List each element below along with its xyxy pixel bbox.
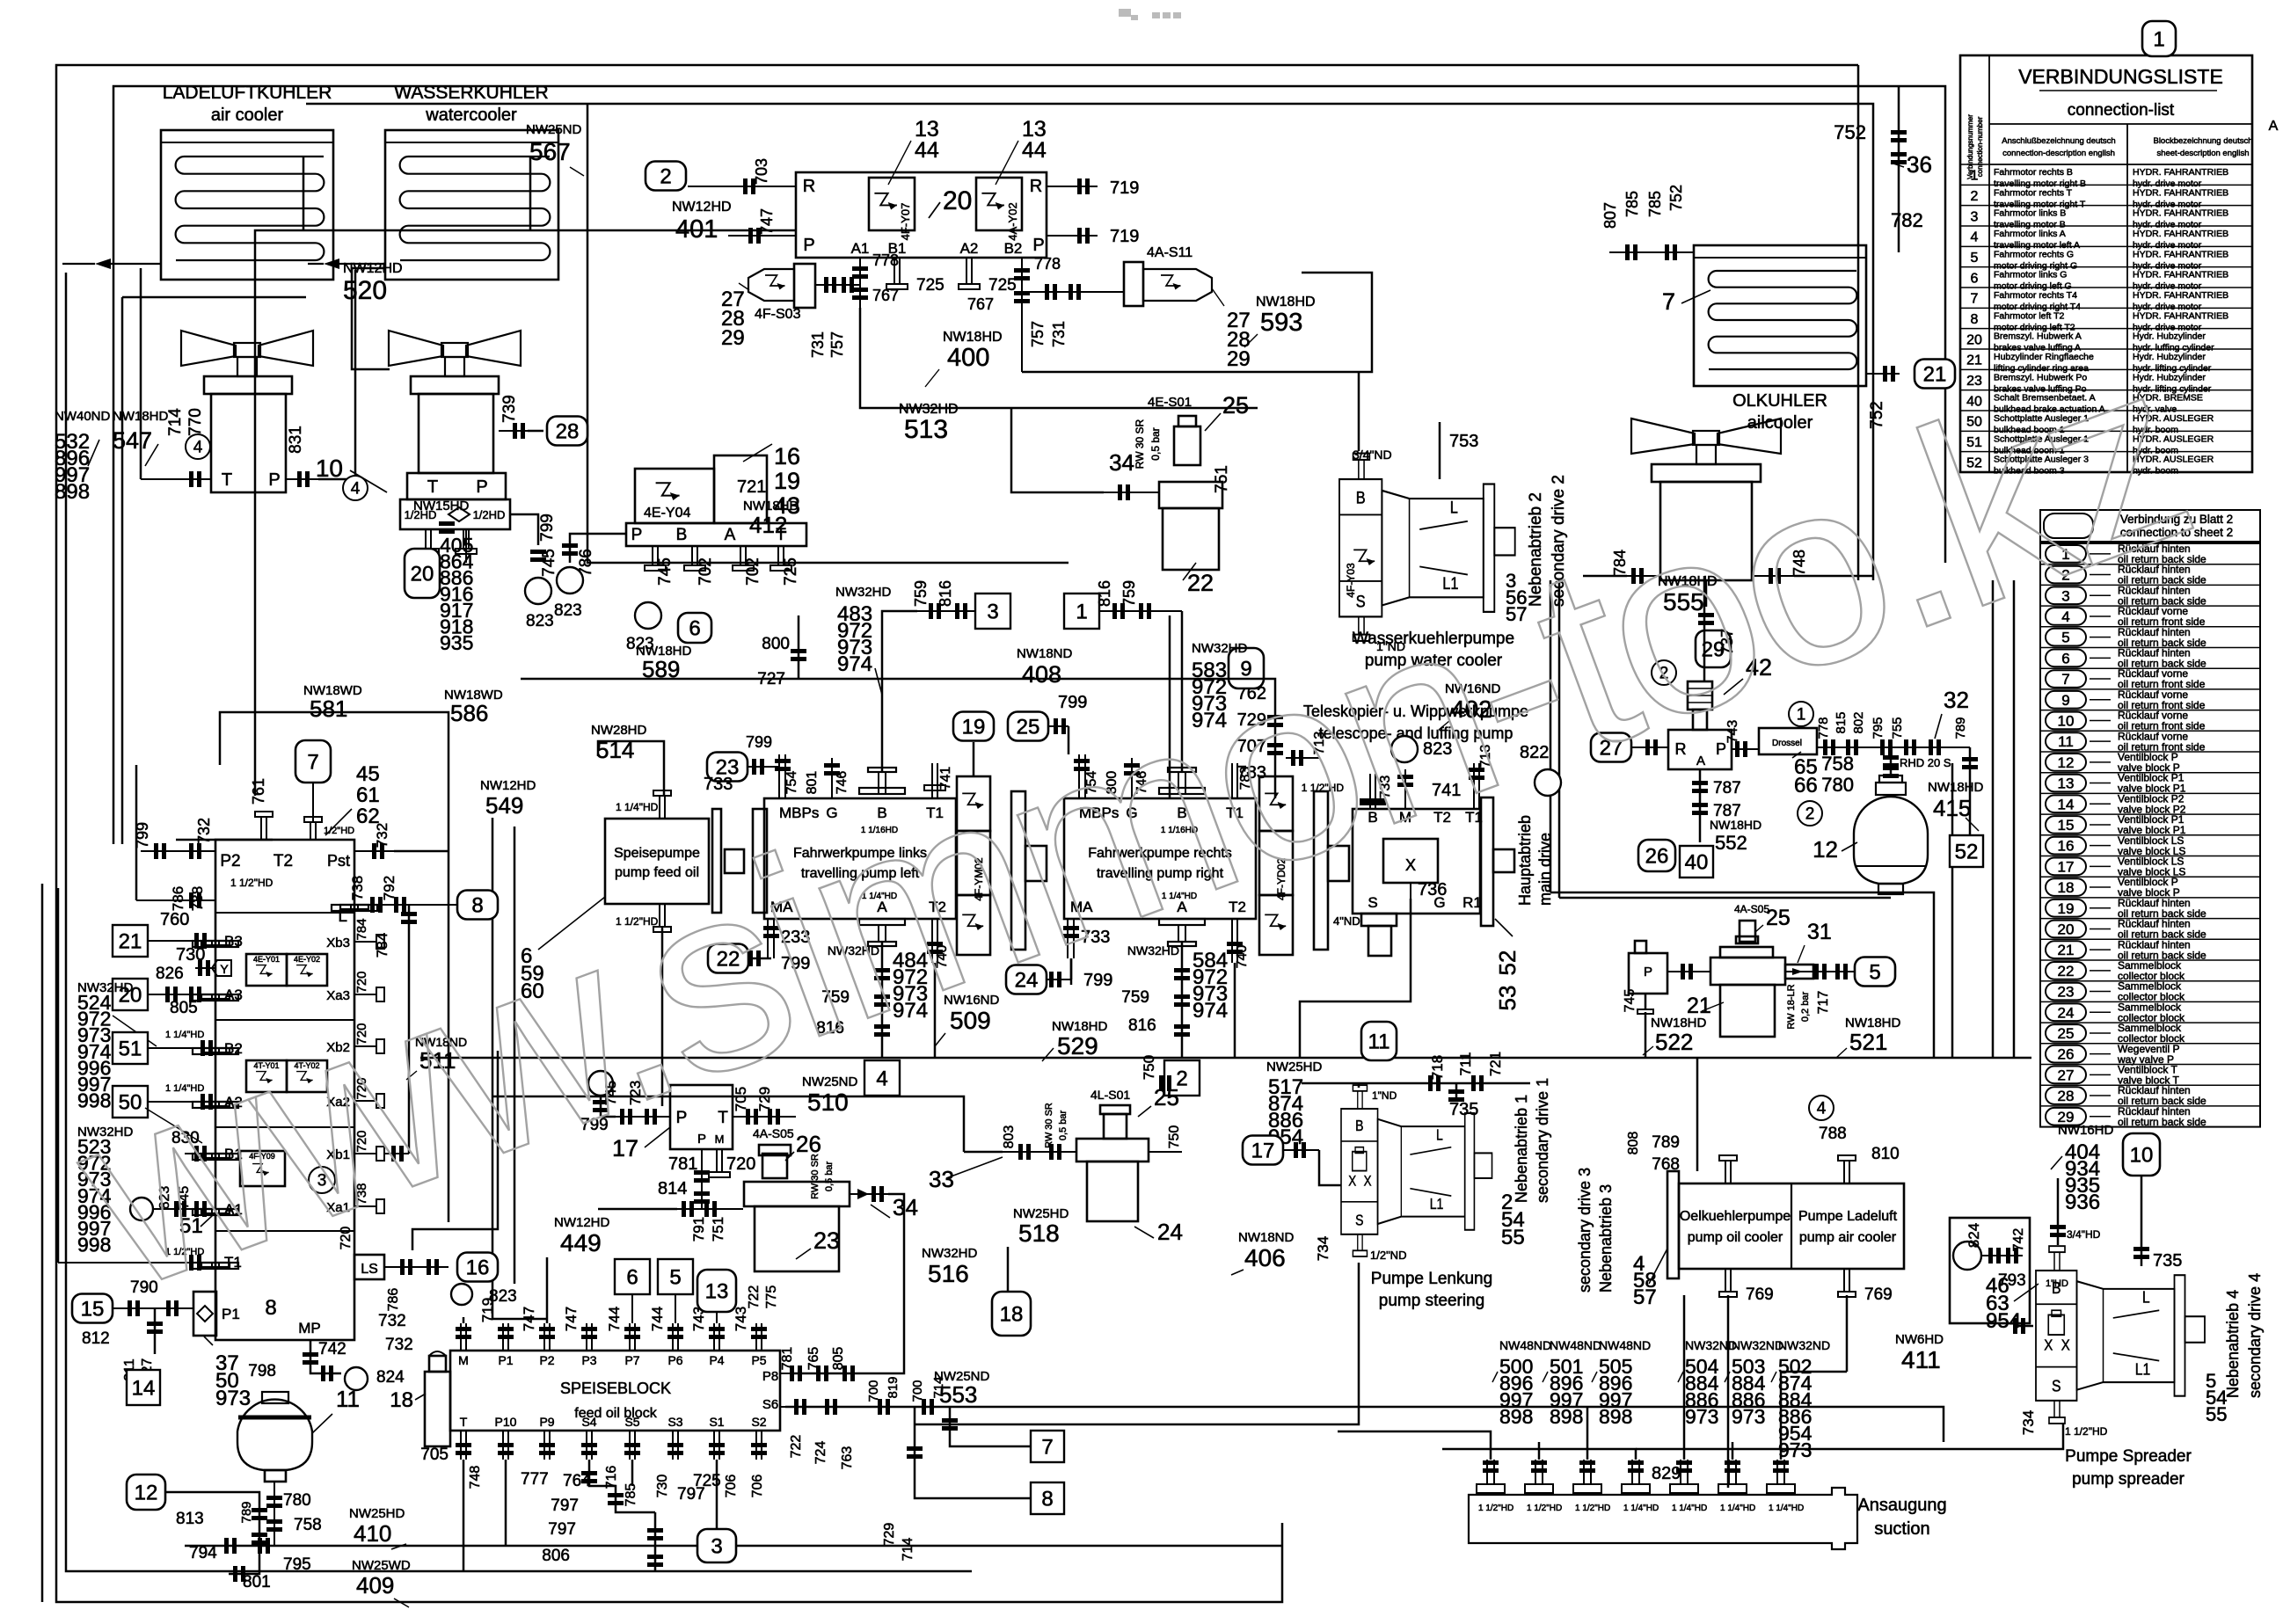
svg-text:L: L — [1436, 1127, 1443, 1144]
svg-text:pump oil cooler: pump oil cooler — [1688, 1230, 1783, 1245]
svg-text:RW 30 SR: RW 30 SR — [1134, 419, 1146, 469]
svg-text:17: 17 — [1251, 1139, 1275, 1162]
Speisepumpe — [605, 819, 709, 904]
svg-text:409: 409 — [356, 1572, 394, 1599]
svg-text:725: 725 — [916, 276, 945, 295]
svg-text:23: 23 — [2058, 984, 2075, 1001]
svg-text:P: P — [476, 477, 487, 497]
svg-text:812: 812 — [82, 1329, 110, 1348]
svg-text:408: 408 — [1022, 661, 1061, 688]
svg-text:759: 759 — [912, 580, 930, 607]
svg-text:2: 2 — [1971, 189, 1979, 204]
table connection to sheet 2 — [2040, 510, 2260, 542]
svg-text:Anschlußbezeichnung deutsch: Anschlußbezeichnung deutsch — [2002, 136, 2115, 146]
svg-text:NW48ND: NW48ND — [1550, 1338, 1601, 1352]
svg-text:44: 44 — [1022, 138, 1047, 163]
svg-text:7: 7 — [307, 750, 318, 774]
wire top right vertical — [1857, 65, 1860, 580]
bottom fittings — [252, 1508, 267, 1512]
svg-text:sheet-description english: sheet-description english — [2156, 149, 2249, 158]
wire right tall pair — [1550, 580, 1552, 892]
svg-text:786: 786 — [386, 1288, 401, 1312]
svg-text:NW15HD: NW15HD — [413, 499, 470, 513]
svg-text:449: 449 — [560, 1229, 602, 1256]
svg-text:L: L — [1450, 498, 1458, 517]
svg-text:7: 7 — [1971, 292, 1979, 307]
gauge 823b — [635, 602, 661, 629]
bubble 15 etc — [72, 1294, 113, 1323]
svg-text:S1: S1 — [709, 1415, 724, 1429]
valve block 20 — [796, 172, 1047, 258]
oil cooler fan — [1631, 419, 1695, 454]
svg-text:NW48ND: NW48ND — [1599, 1338, 1651, 1352]
Pst wire — [354, 850, 394, 852]
svg-text:19: 19 — [774, 468, 800, 494]
svg-text:973: 973 — [215, 1387, 251, 1410]
svg-text:X: X — [2061, 1336, 2070, 1353]
svg-text:15: 15 — [2058, 817, 2075, 834]
svg-text:936: 936 — [2065, 1191, 2100, 1214]
circle 4b — [343, 476, 368, 500]
svg-text:pump spreader: pump spreader — [2072, 1470, 2185, 1489]
gauge 822 — [1535, 769, 1561, 796]
wire coolers loop — [306, 104, 1873, 580]
svg-text:10: 10 — [2058, 712, 2075, 729]
svg-text:750: 750 — [1141, 1055, 1157, 1080]
svg-text:L: L — [2142, 1288, 2150, 1306]
svg-text:714: 714 — [166, 408, 185, 436]
svg-text:NW18HD: NW18HD — [113, 409, 169, 424]
svg-text:4: 4 — [1817, 1099, 1827, 1118]
Hauptabtrieb — [1353, 809, 1480, 914]
fittings col 762/729/707/783 — [1274, 695, 1277, 798]
pump water cooler — [1339, 454, 1515, 641]
svg-text:752: 752 — [1834, 121, 1866, 143]
svg-text:1 1/4"HD: 1 1/4"HD — [1769, 1504, 1804, 1513]
svg-text:797: 797 — [677, 1485, 705, 1504]
top tiny marks — [1119, 9, 1181, 20]
svg-text:T2: T2 — [274, 852, 293, 870]
svg-text:Y: Y — [220, 962, 229, 976]
svg-text:8: 8 — [1971, 312, 1979, 327]
wire NW32HD 513 — [1011, 408, 1104, 492]
svg-text:816: 816 — [1096, 580, 1113, 607]
svg-text:R: R — [1030, 177, 1042, 196]
svg-text:731: 731 — [809, 331, 827, 358]
svg-text:411: 411 — [1901, 1346, 1941, 1373]
svg-text:34: 34 — [1109, 449, 1134, 476]
svg-text:NW48ND: NW48ND — [1499, 1338, 1551, 1352]
svg-text:778: 778 — [1034, 255, 1061, 273]
lines down from neben3 — [1727, 1295, 1730, 1488]
haupt top stubs — [1369, 774, 1371, 809]
svg-text:4E-Y01: 4E-Y01 — [253, 955, 280, 964]
svg-text:Fahrmotor left T2: Fahrmotor left T2 — [1994, 310, 2064, 321]
svg-text:1 1/2"HD: 1 1/2"HD — [1575, 1504, 1610, 1513]
svg-text:connection-description english: connection-description english — [2002, 149, 2115, 158]
svg-text:759: 759 — [1121, 988, 1149, 1007]
svg-text:711: 711 — [1457, 1052, 1474, 1075]
svg-text:Nebenabtrieb 3: Nebenabtrieb 3 — [1597, 1184, 1615, 1293]
svg-text:HYDR. FAHRANTRIEB: HYDR. FAHRANTRIEB — [2133, 167, 2228, 178]
svg-text:700: 700 — [866, 1380, 881, 1402]
bubble 24 — [1006, 965, 1047, 994]
svg-text:725: 725 — [782, 557, 800, 586]
svg-text:733: 733 — [704, 775, 733, 794]
17 right fittings — [733, 1116, 796, 1118]
valve block 17 — [670, 1085, 733, 1149]
svg-text:1/2HD: 1/2HD — [473, 508, 506, 521]
svg-text:NW12HD: NW12HD — [343, 261, 403, 276]
svg-text:1"HD: 1"HD — [2046, 1278, 2068, 1289]
svg-text:0,2 bar: 0,2 bar — [1800, 992, 1811, 1023]
oil cooler tank — [1652, 464, 1761, 482]
svg-text:2: 2 — [660, 164, 671, 188]
svg-text:801: 801 — [243, 1573, 271, 1591]
valve plate under tank2 — [407, 473, 506, 499]
filter inlet — [1104, 492, 1159, 493]
svg-text:L1: L1 — [1430, 1197, 1444, 1213]
svg-text:757: 757 — [1029, 321, 1047, 347]
svg-text:759: 759 — [1120, 580, 1138, 607]
4A-S11 sensor — [1124, 262, 1143, 306]
42 top link — [1703, 576, 1706, 681]
svg-text:782: 782 — [1891, 209, 1923, 231]
svg-text:730: 730 — [655, 1475, 670, 1498]
svg-text:789: 789 — [239, 1501, 254, 1523]
svg-text:520: 520 — [343, 276, 387, 305]
svg-text:725: 725 — [988, 276, 1017, 295]
svg-text:747: 747 — [563, 1307, 580, 1331]
svg-text:974: 974 — [1193, 999, 1228, 1023]
svg-text:898: 898 — [1599, 1405, 1632, 1428]
svg-text:Pst: Pst — [327, 852, 350, 870]
800/727 tee — [798, 615, 800, 679]
svg-text:739: 739 — [500, 395, 519, 423]
wire 549 — [492, 818, 494, 1319]
svg-text:814: 814 — [658, 1179, 687, 1198]
svg-text:721: 721 — [737, 477, 766, 497]
svg-text:791: 791 — [690, 1217, 707, 1242]
cooler coil outlet arrow — [106, 263, 161, 265]
solenoid in pump — [1353, 550, 1375, 565]
svg-text:NW12HD: NW12HD — [554, 1215, 610, 1230]
svg-text:28: 28 — [2058, 1088, 2075, 1104]
solenoid stack left pump — [957, 776, 990, 831]
svg-text:3: 3 — [711, 1534, 722, 1558]
svg-text:7: 7 — [1662, 288, 1675, 315]
svg-text:NW25HD: NW25HD — [1266, 1060, 1323, 1074]
svg-text:0,5 bar: 0,5 bar — [1149, 427, 1162, 460]
neben3 stubs — [1725, 1161, 1726, 1183]
bubbles 19/25 — [953, 712, 994, 741]
svg-text:Pumpe Spreader: Pumpe Spreader — [2065, 1447, 2192, 1466]
svg-text:44: 44 — [915, 138, 939, 163]
svg-text:758: 758 — [1821, 753, 1854, 775]
svg-text:11: 11 — [1368, 1030, 1390, 1053]
svg-text:25: 25 — [1766, 906, 1791, 930]
svg-text:718: 718 — [1429, 1055, 1446, 1080]
svg-text:Fahrmotor rechts T: Fahrmotor rechts T — [1994, 187, 2073, 198]
svg-text:807: 807 — [1601, 202, 1619, 229]
svg-text:744: 744 — [606, 1307, 623, 1331]
svg-text:823: 823 — [526, 612, 554, 630]
svg-text:787: 787 — [1713, 779, 1741, 797]
svg-text:NW32ND: NW32ND — [1732, 1338, 1783, 1352]
svg-text:RW 30 SR: RW 30 SR — [810, 1154, 821, 1199]
wire cooler out to fans — [140, 268, 142, 479]
handle on top — [1688, 681, 1712, 710]
svg-text:799: 799 — [746, 733, 772, 751]
A port down right — [1159, 919, 1205, 925]
svg-text:36: 36 — [1907, 151, 1932, 178]
svg-text:593: 593 — [1260, 309, 1302, 337]
svg-text:415: 415 — [1933, 795, 1971, 821]
wire 593 loop — [1022, 273, 1372, 372]
svg-text:719: 719 — [1110, 227, 1139, 246]
svg-text:MP: MP — [298, 1320, 321, 1336]
svg-text:745: 745 — [540, 549, 558, 577]
svg-text:26: 26 — [2058, 1046, 2075, 1063]
svg-text:S3: S3 — [667, 1415, 682, 1429]
svg-text:R1: R1 — [1462, 894, 1482, 911]
wire second frame — [113, 86, 1945, 844]
svg-text:P: P — [631, 526, 643, 544]
svg-text:4A-S05: 4A-S05 — [753, 1126, 794, 1140]
svg-text:973: 973 — [1685, 1405, 1718, 1428]
svg-text:P9: P9 — [539, 1415, 554, 1429]
svg-text:P10: P10 — [495, 1415, 517, 1429]
svg-text:824: 824 — [376, 1368, 405, 1387]
svg-text:757: 757 — [828, 331, 846, 358]
svg-text:18: 18 — [1000, 1302, 1024, 1326]
svg-text:Fahrmotor rechts G: Fahrmotor rechts G — [1994, 249, 2074, 259]
svg-text:702: 702 — [744, 557, 762, 586]
svg-text:788: 788 — [1819, 1125, 1847, 1143]
svg-text:12: 12 — [1813, 836, 1838, 863]
svg-text:45: 45 — [356, 762, 380, 786]
svg-text:770: 770 — [186, 408, 205, 436]
svg-text:734: 734 — [2020, 1410, 2037, 1435]
svg-text:805: 805 — [831, 1347, 846, 1371]
svg-text:4F-Y07: 4F-Y07 — [899, 203, 912, 241]
svg-text:410: 410 — [354, 1520, 391, 1547]
svg-text:4A-S05: 4A-S05 — [1734, 903, 1769, 915]
svg-text:X: X — [2044, 1336, 2053, 1353]
svg-text:23: 23 — [813, 1227, 840, 1254]
L port tee — [332, 905, 377, 911]
tank2 right port to bubble 28 — [499, 430, 528, 432]
svg-text:786: 786 — [170, 886, 186, 911]
svg-text:40: 40 — [1685, 850, 1709, 874]
speise flanges — [712, 809, 721, 913]
svg-text:21: 21 — [2058, 942, 2075, 958]
oil cooler box — [1694, 245, 1866, 386]
suction manifold — [1469, 1488, 1857, 1549]
svg-text:806: 806 — [542, 1547, 570, 1565]
svg-text:753: 753 — [1449, 432, 1478, 451]
wire NW18WD 581/586 — [220, 712, 449, 1222]
svg-text:4E-S01: 4E-S01 — [1148, 395, 1192, 410]
svg-text:780: 780 — [1821, 774, 1854, 796]
svg-text:4: 4 — [351, 479, 361, 498]
svg-text:0,5 bar: 0,5 bar — [1058, 1111, 1069, 1141]
pump steering — [1341, 1085, 1492, 1256]
svg-text:NW18ND: NW18ND — [1017, 646, 1073, 661]
svg-text:795: 795 — [283, 1555, 311, 1574]
svg-text:52: 52 — [1494, 950, 1521, 976]
cooler LADELUFTKUHLER box — [161, 130, 333, 280]
wire left return lines — [41, 884, 44, 1602]
svg-text:719: 719 — [1110, 178, 1139, 198]
svg-text:LADELUFTKUHLER: LADELUFTKUHLER — [163, 83, 332, 103]
left feed with gauge — [570, 534, 626, 563]
svg-text:29: 29 — [1227, 347, 1251, 371]
svg-text:P6: P6 — [667, 1353, 682, 1367]
svg-text:4E-Y04: 4E-Y04 — [644, 506, 690, 521]
oil cooler pump / air cooler pump — [1667, 1171, 1679, 1278]
PBAT strip — [626, 523, 806, 546]
svg-text:721: 721 — [1487, 1052, 1504, 1076]
svg-text:secondary drive 3: secondary drive 3 — [1576, 1168, 1594, 1293]
svg-text:S2: S2 — [751, 1415, 766, 1429]
svg-text:HYDR. FAHRANTRIEB: HYDR. FAHRANTRIEB — [2133, 270, 2228, 280]
svg-text:6: 6 — [2061, 650, 2069, 666]
svg-text:700: 700 — [910, 1380, 925, 1402]
svg-text:NW12HD: NW12HD — [480, 778, 536, 793]
svg-text:1 1/2"HD: 1 1/2"HD — [1478, 1504, 1513, 1513]
svg-text:781: 781 — [668, 1154, 697, 1174]
wire 400 down and 464 line — [860, 308, 1258, 408]
svg-text:P1: P1 — [498, 1353, 513, 1367]
svg-text:Pumpe Ladeluft: Pumpe Ladeluft — [1798, 1209, 1898, 1224]
svg-text:752: 752 — [1667, 185, 1685, 211]
svg-text:10: 10 — [316, 455, 343, 482]
svg-text:NW18HD: NW18HD — [943, 330, 1003, 345]
svg-text:745: 745 — [1623, 989, 1637, 1013]
svg-text:1: 1 — [1076, 600, 1087, 623]
wire lower 1247 — [492, 1096, 964, 1152]
svg-text:795: 795 — [1871, 717, 1885, 739]
wire outer border top/left/bottom — [56, 65, 1858, 1602]
svg-text:P8: P8 — [762, 1369, 778, 1384]
svg-text:734: 734 — [1315, 1236, 1331, 1261]
svg-text:B: B — [676, 526, 688, 544]
wire NW12HD 401 — [255, 230, 796, 796]
pump spreader — [2036, 1246, 2205, 1424]
svg-text:785: 785 — [1646, 191, 1664, 217]
svg-text:oil return back side: oil return back side — [2118, 1116, 2206, 1128]
accumulator 11 — [237, 1392, 312, 1470]
svg-text:777: 777 — [521, 1470, 549, 1489]
valve 4E-Y04 — [635, 469, 714, 523]
svg-text:547: 547 — [113, 427, 152, 454]
oil cooler outlet to 21 — [1866, 373, 1900, 375]
svg-text:NW12HD: NW12HD — [672, 200, 732, 215]
svg-text:T: T — [427, 477, 438, 497]
svg-text:NW32HD: NW32HD — [835, 585, 892, 600]
svg-text:R: R — [803, 177, 815, 196]
svg-text:26: 26 — [1645, 844, 1669, 868]
svg-text:797: 797 — [551, 1497, 579, 1515]
svg-text:B: B — [1355, 1118, 1363, 1135]
svg-text:1/2"HD: 1/2"HD — [324, 826, 354, 836]
filter 22 — [1159, 482, 1222, 508]
svg-text:pump steering: pump steering — [1379, 1292, 1484, 1310]
svg-text:549: 549 — [485, 792, 523, 819]
right port + 31 + bubble 5 — [1785, 971, 1859, 972]
svg-text:750: 750 — [1167, 1125, 1182, 1149]
svg-text:400: 400 — [947, 344, 989, 372]
svg-text:B2: B2 — [1004, 240, 1023, 257]
svg-text:20: 20 — [411, 562, 434, 586]
spreader S line down-left — [1636, 1423, 2063, 1449]
svg-text:33: 33 — [929, 1166, 954, 1192]
svg-text:P: P — [268, 470, 280, 490]
svg-text:412: 412 — [749, 512, 787, 538]
svg-text:1 1/2"HD: 1 1/2"HD — [2065, 1425, 2108, 1438]
svg-text:769: 769 — [1864, 1285, 1893, 1304]
svg-text:8: 8 — [1041, 1487, 1053, 1511]
A1 gauge — [130, 1198, 153, 1220]
feeder lines into suction — [1338, 1431, 1491, 1460]
svg-text:6: 6 — [626, 1265, 638, 1289]
svg-text:NW32ND: NW32ND — [1778, 1338, 1830, 1352]
svg-text:P2: P2 — [220, 852, 240, 870]
travelling pump left — [764, 798, 956, 919]
svg-text:16: 16 — [2058, 838, 2075, 855]
svg-text:RHD 20 S: RHD 20 S — [1900, 756, 1951, 769]
LS port — [354, 1255, 384, 1279]
table VERBINDUNGSLISTE — [1960, 55, 2252, 472]
svg-text:13: 13 — [2058, 776, 2075, 792]
svg-text:0,5 bar: 0,5 bar — [824, 1162, 835, 1192]
svg-text:P5: P5 — [751, 1353, 766, 1367]
svg-text:13: 13 — [705, 1279, 729, 1303]
svg-text:27: 27 — [2058, 1067, 2075, 1083]
svg-text:765: 765 — [806, 1347, 821, 1371]
fitting 745 + gauge 823 — [510, 514, 538, 545]
svg-text:11: 11 — [2058, 733, 2074, 750]
svg-text:Hydr. Hubzylinder: Hydr. Hubzylinder — [2133, 331, 2206, 342]
wire 553 long — [785, 1407, 1944, 1442]
svg-text:529: 529 — [1057, 1032, 1098, 1060]
bubbles over P7/P6/P4 — [615, 1259, 650, 1294]
under speiseblock wires — [589, 1460, 655, 1512]
svg-text:819: 819 — [886, 1376, 901, 1398]
tank 18 at left — [425, 1372, 450, 1446]
718/711/721 tee — [1302, 1082, 1530, 1085]
solenoid 4F-Y07 — [869, 178, 915, 230]
svg-text:5: 5 — [1869, 960, 1880, 984]
svg-text:air cooler: air cooler — [211, 106, 284, 125]
solenoid 4A-Y02 — [976, 178, 1022, 230]
svg-text:NW32HD: NW32HD — [922, 1246, 978, 1261]
svg-text:22: 22 — [1187, 570, 1214, 596]
svg-text:NW18HD: NW18HD — [1256, 295, 1316, 310]
bubble 9 — [1229, 648, 1264, 688]
svg-text:714: 714 — [901, 1538, 915, 1562]
svg-text:NW25HD: NW25HD — [349, 1506, 405, 1521]
svg-text:6: 6 — [1971, 271, 1979, 286]
svg-text:32: 32 — [1944, 687, 1969, 713]
svg-text:RW 30 SR: RW 30 SR — [1044, 1103, 1054, 1148]
svg-text:745: 745 — [656, 557, 675, 586]
left stubs of block 20 — [688, 186, 796, 187]
svg-text:808: 808 — [1626, 1132, 1641, 1155]
spreader assembly box — [1950, 1218, 2030, 1323]
svg-text:P2: P2 — [539, 1353, 554, 1367]
